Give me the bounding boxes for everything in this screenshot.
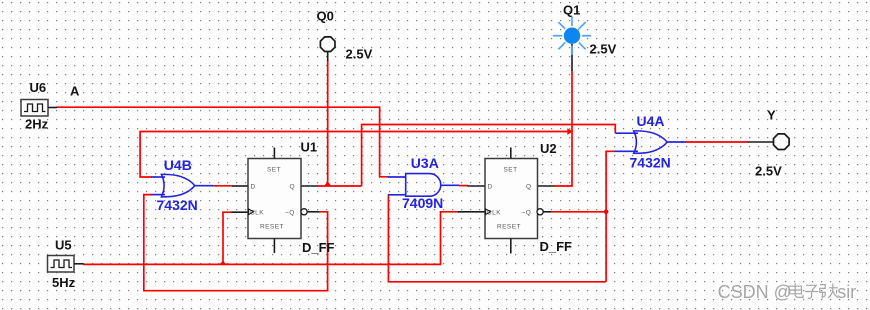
svg-text:7432N: 7432N [630, 155, 671, 171]
svg-text:5Hz: 5Hz [52, 275, 76, 290]
wire: net Q1 - Q(U2) pin stub black [537, 185, 555, 187]
wire: net ~Q(U1) feedback to U4B input 2 [144, 195, 328, 291]
svg-text:U4A: U4A [637, 113, 665, 129]
D flip-flop U2 [485, 148, 543, 254]
svg-text:D_FF: D_FF [302, 240, 335, 255]
svg-text:2Hz: 2Hz [25, 117, 49, 132]
wire: net Q0 horizontal to riser [318, 185, 362, 187]
wire: net A from U6 output [57, 107, 389, 177]
probe Q1 (lit) [553, 17, 591, 56]
glyph zi [805, 285, 818, 298]
junction ~Q(U2) net [604, 210, 609, 215]
wire: U3A input stub top (blue) [388, 176, 406, 178]
wire: net ~Q(U1) pin stub black [307, 211, 319, 213]
svg-text:Q: Q [290, 184, 296, 191]
junction on 5Hz net [219, 261, 226, 265]
wire: U3A input stub bottom (blue) [388, 194, 406, 196]
wire: net Q1 to riser [554, 71, 572, 186]
wire: Q1 probe stub (black) [571, 44, 573, 71]
svg-text:Q0: Q0 [317, 9, 334, 24]
svg-text:U1: U1 [301, 140, 318, 155]
svg-text:Q: Q [526, 184, 532, 191]
wire: U4A out to Y probe red [686, 141, 749, 143]
glyph zhang [820, 283, 838, 298]
svg-text:D: D [488, 184, 493, 191]
svg-text:RESET: RESET [497, 224, 521, 231]
svg-text:2.5V: 2.5V [590, 42, 617, 57]
wire: net ~Q(U2) to junction [551, 211, 606, 213]
svg-text:SET: SET [504, 167, 518, 174]
wire: U4B input stub top (blue) [151, 176, 165, 178]
glyph dian [789, 283, 803, 297]
svg-text:7409N: 7409N [402, 195, 443, 211]
clock source U6 [21, 100, 57, 117]
svg-text:Y: Y [767, 108, 776, 123]
junction Q0 net [324, 182, 331, 186]
wire: U1 CLK pin stub (black) [232, 211, 249, 213]
svg-text:2.5V: 2.5V [346, 47, 373, 62]
clock source U5 [48, 256, 84, 273]
svg-text:D_FF: D_FF [540, 239, 573, 254]
wire: net ~Q(U2) pin stub black [543, 211, 551, 213]
svg-text:~Q: ~Q [522, 210, 532, 217]
or-gate U4B [161, 174, 194, 196]
svg-text:sir: sir [837, 282, 856, 302]
wire: Y probe stub black [748, 141, 773, 143]
svg-text:U4B: U4B [164, 157, 192, 173]
svg-text:Q1: Q1 [563, 2, 580, 17]
svg-text:U5: U5 [55, 238, 72, 253]
wire: U2 CLK pin stub (black) [458, 211, 485, 213]
wire: U3A output stub (blue) [441, 184, 460, 186]
wire: net 5Hz clock from U5 [83, 212, 459, 265]
svg-text:7432N: 7432N [157, 197, 198, 213]
svg-text:CSDN @: CSDN @ [718, 282, 792, 302]
probe Q0 [320, 37, 335, 52]
probe Y [774, 134, 790, 150]
svg-text:SET: SET [267, 167, 281, 174]
D flip-flop U1 [248, 148, 307, 254]
wire: ~Q(U2) riser up to U4A input 2 [606, 151, 615, 281]
wire: ~Q(U2) run to U3A input 2 [388, 195, 606, 282]
wire: U4B input stub bottom (blue) [151, 194, 165, 196]
svg-text:~Q: ~Q [285, 210, 295, 217]
svg-text:2.5V: 2.5V [755, 164, 782, 179]
and-gate U3A [406, 174, 441, 197]
or-gate U4A [634, 131, 668, 153]
wire: U4A output stub (blue) [667, 141, 686, 143]
wire: U4B out to D(U1) red [213, 185, 233, 187]
wire: branch to U1 CLK [223, 212, 232, 264]
wire: D(U1) pin stub black [232, 185, 248, 187]
svg-text:U2: U2 [540, 141, 557, 156]
junction Q1 net [567, 128, 573, 134]
wire: U3A out to D(U2) red [459, 185, 468, 187]
svg-text:A: A [70, 84, 80, 99]
wire: Q0 probe drop (red) [327, 61, 329, 187]
wire: U4B output stub (blue) [194, 185, 213, 187]
wire: net Q0 riser and run to U4A input 1 [362, 125, 616, 187]
wire: U4A input stub bottom (blue) [614, 150, 638, 152]
svg-text:D: D [251, 184, 256, 191]
wire: Q0 probe stub (black) [327, 52, 329, 62]
wire: net Q0 - Q(U1) pin stub black [301, 185, 319, 187]
watermark CSDN @电子张sir [718, 282, 858, 303]
svg-text:U3A: U3A [411, 155, 439, 171]
wire: U4A input stub top (blue) [615, 132, 638, 134]
wire: net Q1 long feedback to U4B input 1 [140, 132, 572, 178]
wire: D(U2) pin stub black [468, 185, 486, 187]
svg-text:U6: U6 [30, 80, 47, 95]
svg-text:RESET: RESET [260, 224, 284, 231]
